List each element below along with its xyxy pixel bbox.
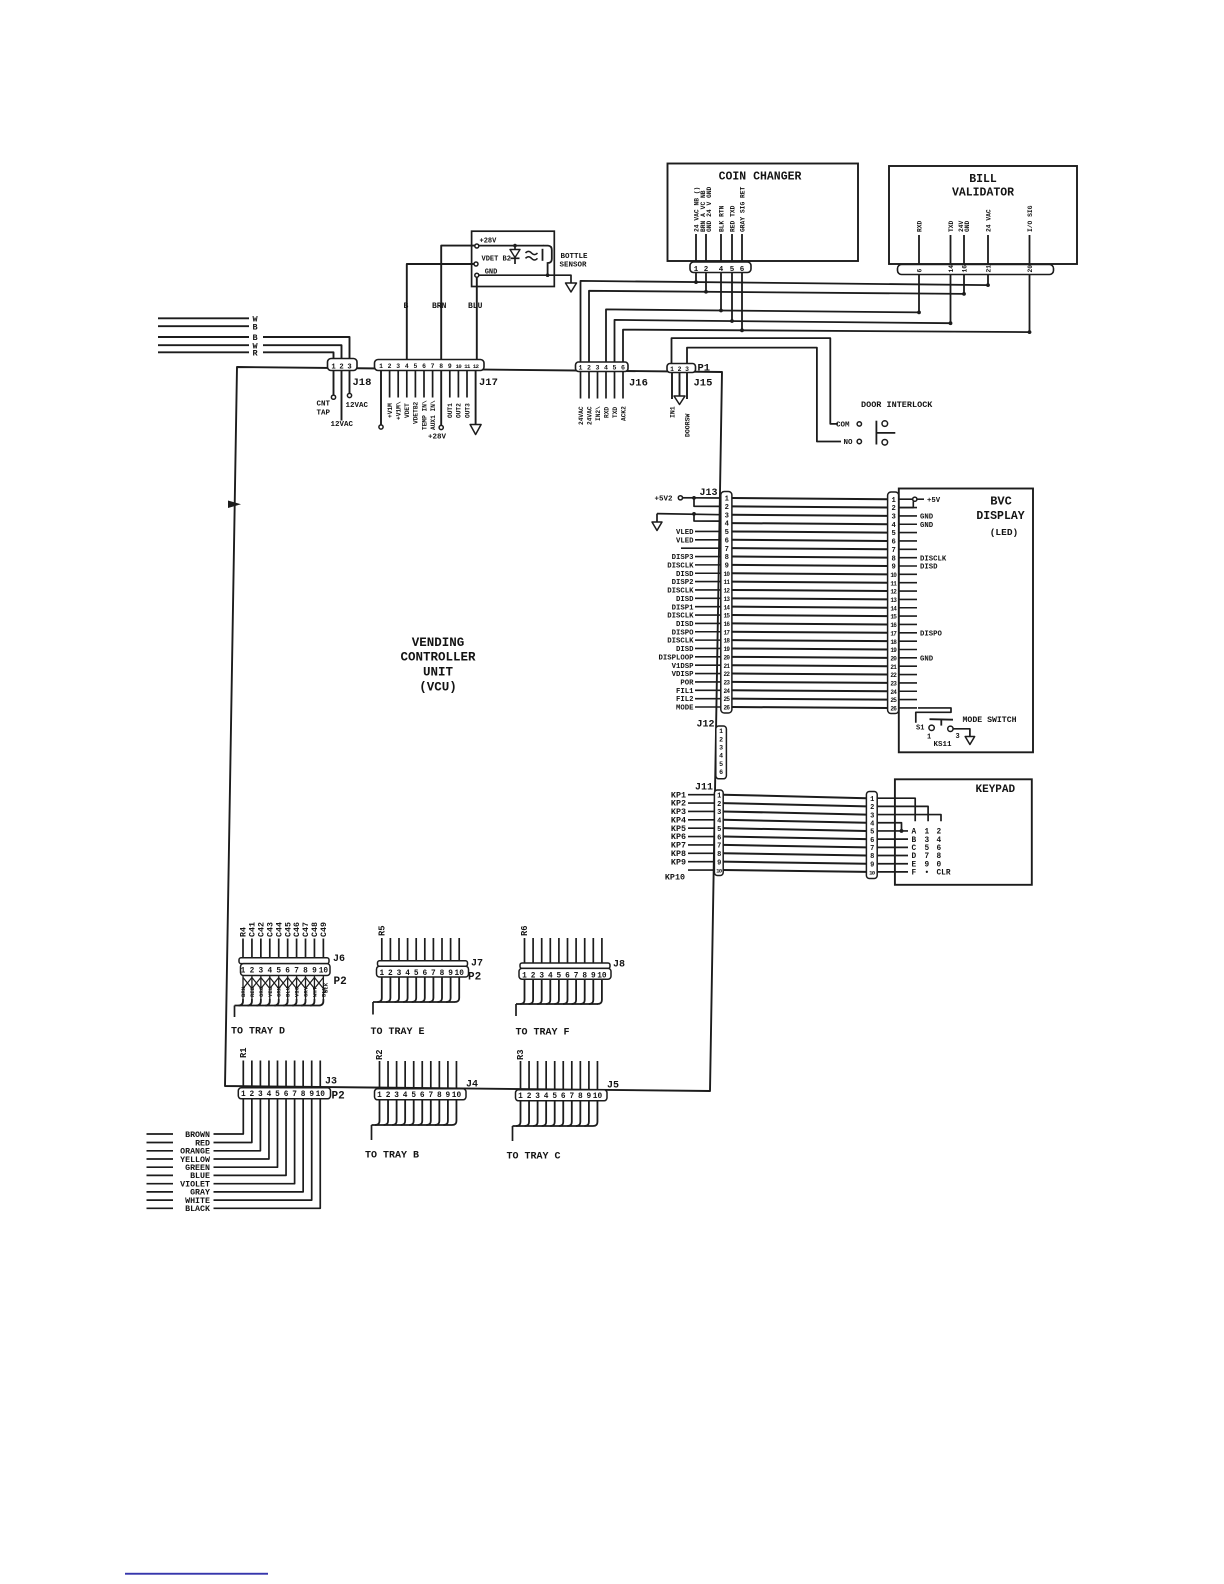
- svg-text:10: 10: [316, 1091, 326, 1099]
- svg-text:IN2\: IN2\: [595, 406, 602, 421]
- wire MODE to mode switch: [916, 708, 951, 723]
- direction arrow on VCU left edge: [228, 501, 241, 509]
- svg-text:DISD: DISD: [676, 621, 694, 629]
- ground arrow at J13: [652, 522, 662, 531]
- svg-text:VLED: VLED: [676, 529, 694, 537]
- svg-text:TEMP IN\: TEMP IN\: [421, 400, 428, 430]
- svg-text:J6: J6: [333, 954, 345, 965]
- svg-text:5: 5: [730, 266, 735, 274]
- svg-text:5: 5: [413, 363, 417, 370]
- keypad key legend: [912, 829, 951, 878]
- VCU title text: [400, 636, 476, 695]
- svg-text:2: 2: [388, 970, 393, 978]
- svg-text:5: 5: [613, 365, 617, 372]
- svg-text:BOTTLE: BOTTLE: [561, 253, 589, 261]
- svg-text:BLU: BLU: [468, 302, 483, 311]
- svg-text:VENDING: VENDING: [412, 636, 465, 650]
- connector J7 top label R5: [377, 925, 387, 936]
- svg-text:6: 6: [285, 968, 290, 976]
- svg-text:DISP3: DISP3: [672, 554, 695, 562]
- svg-text:DOORSW: DOORSW: [685, 413, 692, 437]
- svg-text:J5: J5: [607, 1081, 619, 1092]
- J11 KP pin labels and stubs: [665, 790, 715, 882]
- svg-text:DISCLK: DISCLK: [920, 555, 947, 563]
- J11 pin numbers 1-10: [716, 792, 723, 874]
- connector J8 top label R6: [520, 925, 530, 936]
- svg-text:3: 3: [394, 1092, 399, 1100]
- label CNT TAP: [317, 401, 331, 418]
- svg-text:DISCLK: DISCLK: [667, 613, 694, 621]
- svg-text:10: 10: [452, 1092, 462, 1100]
- connector J16: [576, 362, 629, 372]
- bill validator box: [889, 166, 1077, 264]
- svg-text:7: 7: [891, 547, 895, 555]
- svg-text:J12: J12: [697, 719, 715, 730]
- svg-text:TAP: TAP: [317, 410, 331, 418]
- svg-text:3: 3: [725, 512, 729, 520]
- svg-text:12VAC: 12VAC: [331, 421, 354, 429]
- node +5V2: [655, 496, 693, 504]
- svg-text:B: B: [253, 322, 258, 332]
- svg-text:5: 5: [725, 529, 729, 537]
- bill validator title: [952, 173, 1014, 200]
- svg-text:GND: GND: [920, 655, 934, 663]
- svg-text:1: 1: [925, 829, 930, 837]
- door interlock switch S2: [876, 421, 895, 445]
- svg-text:3: 3: [539, 972, 544, 980]
- svg-text:P2: P2: [334, 976, 347, 988]
- svg-text:R: R: [253, 349, 259, 359]
- svg-text:GRN: GRN: [276, 987, 283, 997]
- J17 pin labels +V1M +V1M VDET VDETB2: [387, 401, 420, 424]
- svg-text:B: B: [404, 302, 409, 311]
- svg-text:TXD: TXD: [948, 220, 955, 232]
- svg-text:2: 2: [891, 505, 895, 513]
- label BOTTLE SENSOR: [560, 253, 589, 270]
- svg-text:5: 5: [557, 972, 562, 980]
- svg-text:5: 5: [411, 1092, 416, 1100]
- J5 pin numbers 1-10: [518, 1093, 602, 1101]
- svg-text:TO TRAY B: TO TRAY B: [365, 1151, 419, 1162]
- svg-text:4: 4: [870, 820, 874, 828]
- J8 harness bundle to tray F: [516, 979, 602, 1016]
- svg-text:VDET: VDET: [404, 403, 411, 418]
- svg-text:C49: C49: [320, 922, 329, 937]
- J6 pin numbers 1-10: [241, 968, 329, 976]
- svg-text:KEYPAD: KEYPAD: [976, 784, 1016, 796]
- svg-text:7: 7: [725, 546, 729, 554]
- svg-text:6: 6: [621, 365, 625, 372]
- svg-text:GND: GND: [920, 514, 934, 522]
- svg-text:R3: R3: [516, 1049, 526, 1060]
- svg-text:RED TXD: RED TXD: [729, 205, 736, 232]
- svg-text:1: 1: [717, 792, 721, 800]
- bottle sensor photo receiver symbol: [526, 246, 552, 276]
- svg-text:5: 5: [719, 761, 723, 768]
- wire J3 pin 7 to VIOLET: [214, 1099, 295, 1184]
- svg-text:NO: NO: [844, 439, 854, 447]
- wire net E: J16-6 / coin-6 / validator-20: [623, 328, 1031, 362]
- connector J4 housing: [375, 1089, 467, 1100]
- svg-text:TO TRAY E: TO TRAY E: [371, 1027, 425, 1038]
- svg-text:10: 10: [455, 970, 465, 978]
- svg-text:3: 3: [397, 970, 402, 978]
- svg-text:7: 7: [431, 363, 435, 370]
- mode switch S1 KS11: [916, 719, 960, 741]
- wire BLU: GND to J17 pin 12: [476, 277, 478, 359]
- wire J3 pin 4 to YELLOW: [214, 1099, 269, 1159]
- svg-text:9: 9: [312, 968, 317, 976]
- J3 pin numbers 1-10: [241, 1091, 325, 1099]
- svg-text:DISD: DISD: [920, 564, 938, 572]
- svg-text:+28V: +28V: [480, 238, 498, 246]
- svg-text:C43: C43: [266, 922, 275, 937]
- svg-text:BILL: BILL: [969, 173, 997, 186]
- svg-text:BLK RTN: BLK RTN: [718, 205, 725, 232]
- svg-text:P1: P1: [698, 363, 711, 375]
- svg-text:9: 9: [725, 562, 729, 570]
- J4 pin wires above: [380, 1061, 457, 1088]
- J3 pin wires above: [243, 1061, 320, 1087]
- svg-text:R1: R1: [239, 1047, 249, 1058]
- wire +5V2 to J13 pins 1,2: [692, 496, 721, 506]
- svg-text:7: 7: [870, 845, 874, 853]
- svg-text:C: C: [912, 845, 917, 853]
- J4 harness bundle to tray B: [372, 1100, 457, 1140]
- svg-text:14: 14: [948, 265, 955, 273]
- svg-text:20: 20: [1027, 265, 1034, 273]
- J13 left pin labels and stubs: [658, 529, 720, 713]
- wire B to J18 pin 3: [158, 336, 249, 338]
- svg-text:DISPO: DISPO: [672, 629, 695, 637]
- svg-text:5: 5: [552, 1093, 557, 1101]
- svg-text:COIN CHANGER: COIN CHANGER: [719, 171, 802, 184]
- svg-text:ORG: ORG: [258, 986, 265, 997]
- svg-text:1: 1: [719, 728, 723, 735]
- svg-text:J4: J4: [466, 1080, 478, 1091]
- svg-text:J15: J15: [694, 378, 713, 390]
- coin changer pin numbers 1 2 4 5 6: [694, 266, 745, 274]
- svg-text:1: 1: [379, 363, 383, 370]
- wire J3 pin 3 to ORANGE: [214, 1099, 261, 1151]
- svg-text:C47: C47: [302, 922, 311, 937]
- svg-text:R6: R6: [520, 925, 530, 936]
- footer hyperlink line: [125, 1573, 268, 1575]
- svg-text:24VAC: 24VAC: [578, 406, 585, 425]
- svg-text:6: 6: [561, 1093, 566, 1101]
- connector J8 header: [520, 963, 610, 968]
- wire net B: J16-2 / coin-2 / validator-16: [589, 290, 966, 362]
- wire J3 pin 10 to BLACK: [214, 1099, 321, 1209]
- svg-text:8: 8: [440, 970, 445, 978]
- svg-text:3: 3: [891, 514, 895, 522]
- wire net D: J16-5 / coin-5 / validator-14: [615, 319, 953, 362]
- svg-text:MODE: MODE: [676, 705, 694, 713]
- svg-text:+5V2: +5V2: [655, 496, 674, 504]
- wire J3 pin 9 to WHITE: [214, 1099, 312, 1200]
- connector J8 plug housing: [519, 968, 611, 979]
- J17 pin 1 wire to terminal: [379, 371, 383, 430]
- svg-text:OUT3: OUT3: [464, 403, 471, 418]
- svg-text:POR: POR: [680, 680, 694, 688]
- svg-text:1: 1: [522, 972, 527, 980]
- J13 pin numbers 1-26: [724, 496, 731, 712]
- svg-text:6: 6: [725, 537, 729, 545]
- svg-text:BLK: BLK: [323, 982, 330, 993]
- svg-text:+V1M: +V1M: [387, 403, 394, 418]
- svg-text:(LED): (LED): [990, 527, 1019, 538]
- svg-text:DISD: DISD: [676, 646, 694, 654]
- svg-text:6: 6: [284, 1091, 289, 1099]
- P1 pin numbers 1 2 3: [670, 366, 689, 373]
- svg-text:2: 2: [250, 968, 255, 976]
- door interlock NO terminal: [857, 439, 861, 443]
- keypad row wire 4 junction: [877, 823, 903, 833]
- svg-text:8: 8: [725, 554, 729, 562]
- J16 pin labels: [578, 406, 628, 425]
- svg-text:KP9: KP9: [671, 857, 686, 867]
- svg-text:5: 5: [870, 829, 874, 837]
- svg-text:GRAY SIG RET: GRAY SIG RET: [739, 186, 746, 232]
- bottle sensor GND wire to chassis ground: [479, 273, 577, 292]
- J17 pin 12 wire to ground: [470, 371, 481, 435]
- bottle sensor internal +28V rail: [479, 244, 544, 248]
- svg-text:6: 6: [719, 769, 723, 776]
- svg-text:10: 10: [597, 972, 607, 980]
- svg-text:J16: J16: [629, 378, 648, 390]
- svg-text:ACK2: ACK2: [620, 406, 627, 421]
- J15 pin 2 ground arrow: [674, 373, 685, 405]
- connector J3 top label R1: [239, 1047, 249, 1058]
- J7 pin numbers 1-10: [379, 970, 464, 978]
- svg-text:4: 4: [717, 818, 721, 826]
- connector J6 top labels R4 C41-C49: [240, 922, 329, 937]
- svg-text:7: 7: [717, 843, 721, 851]
- bottle sensor box: [472, 231, 555, 286]
- J18 pin 1 wire to CNT TAP terminal: [331, 371, 335, 400]
- wire J3 pin 2 to RED: [214, 1099, 252, 1143]
- svg-text:1: 1: [694, 266, 699, 274]
- svg-text:1: 1: [379, 970, 384, 978]
- connector J6 header: [239, 958, 329, 964]
- svg-text:2: 2: [388, 363, 392, 370]
- svg-text:DISCLK: DISCLK: [667, 638, 694, 646]
- svg-text:7: 7: [428, 1092, 433, 1100]
- svg-text:8: 8: [578, 1093, 583, 1101]
- svg-text:C42: C42: [257, 922, 266, 937]
- wire J13 pins 3,4 to ground: [657, 512, 721, 522]
- mode switch ground arrow: [953, 729, 975, 745]
- svg-text:C41: C41: [249, 922, 258, 937]
- svg-text:1: 1: [670, 366, 674, 373]
- J17 pin stubs 2-7 and 9-11: [390, 371, 467, 398]
- svg-text:24 VAC: 24 VAC: [985, 209, 992, 232]
- svg-text:KS11: KS11: [934, 741, 953, 749]
- svg-text:GND: GND: [920, 522, 934, 530]
- svg-text:WHT: WHT: [311, 986, 318, 997]
- BVC display connector housing: [888, 492, 899, 714]
- svg-text:C45: C45: [284, 922, 293, 937]
- svg-text:OUT1: OUT1: [447, 403, 454, 418]
- svg-text:2: 2: [704, 266, 709, 274]
- connector P2 housing at J6: [241, 964, 331, 976]
- svg-text:3: 3: [596, 365, 600, 372]
- J16 pin numbers 1-6: [579, 365, 626, 372]
- svg-text:2: 2: [717, 801, 721, 809]
- svg-text:R4: R4: [240, 927, 249, 937]
- svg-text:VDISP: VDISP: [672, 671, 695, 679]
- svg-text:2: 2: [678, 366, 682, 373]
- svg-text:4: 4: [267, 1091, 272, 1099]
- svg-text:KP10: KP10: [665, 872, 685, 882]
- svg-text:1: 1: [377, 1092, 382, 1100]
- svg-text:9: 9: [446, 1092, 451, 1100]
- svg-text:TO TRAY C: TO TRAY C: [507, 1152, 561, 1163]
- svg-text:2: 2: [870, 804, 874, 812]
- svg-text:6: 6: [565, 972, 570, 980]
- svg-text:7: 7: [431, 970, 436, 978]
- connector J5 housing: [516, 1090, 608, 1101]
- svg-text:DISPLOOP: DISPLOOP: [658, 654, 694, 662]
- svg-text:7: 7: [569, 1093, 574, 1101]
- svg-text:+5V: +5V: [927, 497, 941, 505]
- svg-text:TO TRAY D: TO TRAY D: [231, 1027, 285, 1038]
- svg-text:9: 9: [870, 861, 874, 869]
- connector J5 top label R3: [516, 1049, 526, 1060]
- svg-text:12VAC: 12VAC: [346, 402, 369, 410]
- J17 pin labels OUT1 OUT2 OUT3: [447, 403, 471, 418]
- svg-text:6: 6: [891, 539, 895, 547]
- svg-text:8: 8: [937, 853, 942, 861]
- door interlock COM terminal: [857, 422, 861, 426]
- svg-text:J13: J13: [700, 488, 718, 499]
- svg-text:+V1M\: +V1M\: [396, 401, 403, 420]
- svg-text:TO TRAY F: TO TRAY F: [516, 1028, 570, 1039]
- svg-text:3: 3: [956, 733, 960, 741]
- svg-text:D: D: [912, 853, 917, 861]
- svg-text:VDET B2: VDET B2: [482, 256, 511, 264]
- J8 pin numbers 1-10: [522, 972, 607, 980]
- keypad column wire 2: [877, 806, 928, 821]
- svg-text:8: 8: [439, 363, 443, 370]
- svg-text:2: 2: [587, 365, 591, 372]
- svg-text:IN1: IN1: [670, 406, 677, 418]
- svg-text:5: 5: [275, 1091, 280, 1099]
- J18 pin 2 wire 12VAC: [341, 371, 343, 421]
- svg-text:4: 4: [548, 972, 553, 980]
- svg-text:10: 10: [319, 968, 329, 976]
- connector J17: [375, 360, 485, 371]
- keypad row wires A-F: [877, 831, 908, 872]
- svg-text:21: 21: [986, 265, 993, 273]
- bottle sensor pin GND: [475, 269, 498, 278]
- svg-text:FIL2: FIL2: [676, 696, 694, 704]
- wire J3 pin 5 to GREEN: [214, 1099, 278, 1167]
- svg-text:3: 3: [870, 812, 874, 820]
- svg-text:VDETB2: VDETB2: [413, 401, 420, 424]
- svg-text:•: •: [925, 870, 930, 878]
- wire W to J18 pin 2: [158, 344, 249, 346]
- svg-text:5: 5: [891, 530, 895, 538]
- J18 pin numbers 1 2 3: [331, 364, 351, 372]
- svg-text:2: 2: [250, 1091, 255, 1099]
- svg-text:C48: C48: [311, 922, 320, 937]
- J11 ribbon cable 10 wires: [723, 795, 866, 872]
- svg-text:1: 1: [241, 1091, 246, 1099]
- coin changer box: [668, 164, 859, 262]
- connector J4 top label R2: [375, 1049, 385, 1060]
- svg-text:R2: R2: [375, 1049, 385, 1060]
- keypad column wire 1: [877, 798, 915, 821]
- J6 harness bundle to tray D: [235, 999, 324, 1017]
- J13 ribbon cable 26 wires: [732, 498, 888, 708]
- svg-text:8: 8: [891, 555, 895, 563]
- J15 pin 1 stub IN1: [671, 373, 673, 400]
- svg-text:J7: J7: [471, 959, 483, 970]
- svg-text:4: 4: [604, 365, 608, 372]
- vending controller unit VCU box: [225, 367, 722, 1091]
- svg-text:E: E: [912, 861, 917, 869]
- svg-text:(VCU): (VCU): [419, 681, 457, 695]
- wire B: VDET to J17 pin 4: [407, 264, 474, 360]
- J17 pin numbers 1-12: [379, 363, 480, 370]
- svg-text:AUX1 IN\: AUX1 IN\: [430, 400, 437, 430]
- svg-text:RXD: RXD: [916, 220, 923, 232]
- svg-text:4: 4: [403, 1092, 408, 1100]
- keypad column wire 3: [877, 815, 941, 822]
- svg-text:1: 1: [579, 365, 583, 372]
- J5 pin wires above: [521, 1061, 598, 1089]
- svg-text:5: 5: [276, 968, 281, 976]
- svg-text:J8: J8: [613, 960, 625, 971]
- svg-text:RED: RED: [249, 986, 256, 997]
- svg-text:YEL: YEL: [267, 986, 274, 997]
- svg-text:7: 7: [574, 972, 579, 980]
- svg-text:0: 0: [937, 861, 942, 869]
- svg-text:VLED: VLED: [676, 537, 694, 545]
- svg-text:P2: P2: [468, 972, 481, 984]
- svg-text:24VAC: 24VAC: [586, 406, 593, 425]
- svg-text:DISCLK: DISCLK: [667, 562, 694, 570]
- svg-text:5: 5: [717, 826, 721, 834]
- svg-text:9: 9: [448, 363, 452, 370]
- connector J12 housing: [716, 726, 727, 779]
- svg-text:9: 9: [891, 564, 895, 572]
- svg-text:BLACK: BLACK: [185, 1205, 210, 1214]
- svg-text:6: 6: [917, 269, 924, 273]
- coin changer pin stubs: [696, 234, 742, 262]
- svg-text:BVC: BVC: [990, 495, 1012, 509]
- svg-text:+28V: +28V: [428, 434, 447, 442]
- svg-text:3: 3: [396, 363, 400, 370]
- svg-text:3: 3: [685, 366, 689, 373]
- bottle sensor pin VDET B2: [474, 256, 511, 267]
- svg-text:7: 7: [294, 968, 299, 976]
- svg-text:R5: R5: [377, 925, 387, 936]
- svg-text:8: 8: [437, 1092, 442, 1100]
- svg-text:4: 4: [937, 837, 942, 845]
- svg-text:C46: C46: [293, 922, 302, 937]
- svg-text:5: 5: [925, 845, 930, 853]
- svg-text:2: 2: [531, 972, 536, 980]
- connector J7 header: [378, 961, 468, 966]
- J4 pin numbers 1-10: [377, 1092, 461, 1100]
- svg-text:1: 1: [241, 968, 246, 976]
- svg-text:BLU: BLU: [285, 987, 292, 997]
- svg-text:COM: COM: [836, 422, 850, 430]
- svg-text:S1: S1: [916, 725, 924, 733]
- svg-text:3: 3: [535, 1093, 540, 1101]
